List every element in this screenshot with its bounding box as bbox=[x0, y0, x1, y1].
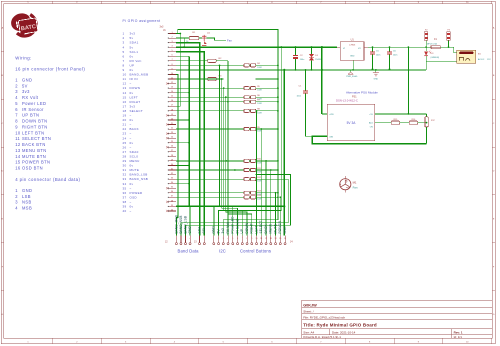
svg-text:Control Buttons: Control Buttons bbox=[240, 249, 271, 254]
svg-text:2: 2 bbox=[180, 238, 181, 240]
wire SDA1 SCL1 to J3 bbox=[176, 43, 200, 236]
svg-text:BACK: BACK bbox=[130, 127, 139, 131]
BATC logo bbox=[9, 11, 38, 36]
svg-text:26: 26 bbox=[123, 145, 127, 149]
svg-text:MENU BTN: MENU BTN bbox=[22, 148, 47, 153]
svg-text:+VIN: +VIN bbox=[329, 114, 334, 116]
svg-text:OSD BTN: OSD BTN bbox=[22, 166, 43, 171]
svg-text:BAND_LSB: BAND_LSB bbox=[183, 216, 187, 233]
svg-text:37: 37 bbox=[123, 195, 127, 199]
power flag PWR_FLAG on 0v bbox=[350, 70, 352, 72]
svg-text:BAND_NSB: BAND_NSB bbox=[130, 177, 149, 181]
svg-text:Fan: Fan bbox=[353, 186, 358, 190]
svg-text:POWER BTN: POWER BTN bbox=[22, 160, 50, 165]
svg-text:13: 13 bbox=[123, 86, 127, 90]
wire GND to band connector bbox=[189, 206, 191, 235]
svg-text:3v3: 3v3 bbox=[221, 228, 225, 234]
svg-text:GND: GND bbox=[188, 226, 192, 234]
svg-text:1: 1 bbox=[123, 32, 125, 36]
svg-text:13: 13 bbox=[15, 148, 21, 153]
wires drops to control connector bbox=[213, 206, 215, 235]
svg-text:3v3: 3v3 bbox=[130, 32, 136, 36]
svg-text:1: 1 bbox=[15, 188, 18, 193]
svg-text:IR Sensor: IR Sensor bbox=[22, 107, 44, 112]
ground symbol bbox=[375, 70, 377, 73]
svg-text:10: 10 bbox=[15, 130, 21, 135]
svg-text:3: 3 bbox=[223, 238, 224, 240]
svg-text:File: RYDE_GPIO_v23-kad.sch: File: RYDE_GPIO_v23-kad.sch bbox=[303, 316, 345, 320]
svg-text:KiCad E.D.A. kicad (5.1.9)-1: KiCad E.D.A. kicad (5.1.9)-1 bbox=[303, 335, 341, 339]
svg-text:12: 12 bbox=[123, 82, 127, 86]
svg-text:0v: 0v bbox=[130, 182, 134, 186]
svg-text:13: 13 bbox=[270, 238, 272, 240]
svg-text:POWER: POWER bbox=[130, 191, 143, 195]
svg-text:10: 10 bbox=[256, 238, 258, 240]
svg-text:9: 9 bbox=[251, 238, 252, 240]
wire 3v3 rail bbox=[179, 34, 181, 107]
capacitor C2 bbox=[295, 47, 297, 55]
svg-text:POWER: POWER bbox=[278, 220, 282, 233]
svg-text:MF-R 0.5A: MF-R 0.5A bbox=[427, 42, 437, 45]
svg-text:~: ~ bbox=[130, 132, 132, 136]
wire regulator input bbox=[368, 46, 431, 48]
svg-text:SDA: SDA bbox=[197, 226, 201, 234]
svg-text:4: 4 bbox=[15, 206, 18, 211]
svg-text:~: ~ bbox=[130, 186, 132, 190]
svg-text:OSD: OSD bbox=[283, 226, 287, 234]
svg-text:0v: 0v bbox=[130, 141, 134, 145]
svg-text:DOWN BTN: DOWN BTN bbox=[22, 119, 48, 124]
svg-text:27: 27 bbox=[123, 150, 127, 154]
svg-text:Pi GPIO assignment: Pi GPIO assignment bbox=[123, 19, 161, 23]
svg-text:~: ~ bbox=[130, 200, 132, 204]
svg-text:Size: A4: Size: A4 bbox=[303, 330, 314, 334]
svg-text:RX Volt: RX Volt bbox=[226, 222, 230, 233]
svg-text:Date: 2021-10-14: Date: 2021-10-14 bbox=[332, 330, 356, 334]
svg-text:32: 32 bbox=[123, 173, 127, 177]
svg-text:23: 23 bbox=[123, 132, 127, 136]
svg-text:IR Sensor: IR Sensor bbox=[235, 218, 239, 234]
svg-text:1: 1 bbox=[213, 238, 214, 240]
svg-text:2: 2 bbox=[218, 238, 219, 240]
svg-text:33: 33 bbox=[123, 177, 127, 181]
svg-text:MENU: MENU bbox=[269, 223, 273, 233]
svg-text:40: 40 bbox=[123, 209, 127, 213]
svg-text:14: 14 bbox=[15, 154, 21, 159]
svg-text:4 pin connector (Band data): 4 pin connector (Band data) bbox=[15, 177, 80, 182]
svg-text:21: 21 bbox=[123, 123, 127, 127]
wire IR input bbox=[176, 78, 224, 80]
svg-text:18: 18 bbox=[123, 109, 127, 113]
svg-text:~: ~ bbox=[130, 136, 132, 140]
svg-text:4: 4 bbox=[228, 238, 229, 240]
svg-text:6: 6 bbox=[123, 54, 125, 58]
svg-text:Fan: Fan bbox=[227, 38, 232, 42]
svg-text:3: 3 bbox=[15, 200, 18, 205]
svg-text:BACK: BACK bbox=[264, 224, 268, 234]
svg-text:G: G bbox=[2, 314, 4, 316]
svg-text:31: 31 bbox=[123, 168, 127, 172]
svg-text:28: 28 bbox=[123, 154, 127, 158]
svg-text:12: 12 bbox=[265, 238, 267, 240]
svg-text:7: 7 bbox=[123, 59, 125, 63]
svg-text:SCL0: SCL0 bbox=[130, 154, 139, 158]
svg-text:LSB: LSB bbox=[22, 194, 31, 199]
svg-text:16: 16 bbox=[15, 166, 21, 171]
svg-text:4: 4 bbox=[190, 238, 191, 240]
svg-text:5: 5 bbox=[123, 50, 125, 54]
svg-text:SCL1: SCL1 bbox=[130, 50, 139, 54]
svg-text:1: 1 bbox=[15, 78, 18, 83]
wires pull-up collector joins bbox=[256, 64, 278, 66]
capacitor C6 bbox=[389, 47, 391, 52]
svg-text:0v: 0v bbox=[130, 205, 134, 209]
svg-text:35: 35 bbox=[123, 186, 127, 190]
svg-text:15: 15 bbox=[123, 95, 127, 99]
svg-text:0v: 0v bbox=[130, 54, 134, 58]
svg-text:100R: 100R bbox=[257, 103, 262, 105]
svg-text:20: 20 bbox=[123, 118, 127, 122]
svg-text:36: 36 bbox=[123, 191, 127, 195]
svg-text:16: 16 bbox=[123, 100, 127, 104]
svg-text:14: 14 bbox=[275, 238, 277, 240]
svg-text:MUTE: MUTE bbox=[130, 168, 140, 172]
svg-text:25: 25 bbox=[123, 141, 127, 145]
svg-text:100u: 100u bbox=[300, 59, 304, 61]
wire PSU input feed bbox=[321, 47, 323, 114]
svg-text:38: 38 bbox=[123, 200, 127, 204]
svg-text:NSB: NSB bbox=[22, 200, 32, 205]
resistor R17 bbox=[426, 114, 428, 117]
svg-text:5V 3A: 5V 3A bbox=[347, 121, 357, 125]
svg-text:5: 5 bbox=[15, 101, 18, 106]
svg-text:~: ~ bbox=[130, 114, 132, 118]
svg-text:MSB: MSB bbox=[22, 206, 32, 211]
svg-text:Alternative PSU Module: Alternative PSU Module bbox=[346, 91, 378, 95]
svg-text:GND: GND bbox=[212, 226, 216, 234]
svg-text:(GREEN): (GREEN) bbox=[431, 57, 440, 59]
svg-text:3v3: 3v3 bbox=[160, 26, 165, 29]
svg-text:100n: 100n bbox=[297, 96, 301, 98]
svg-text:12: 12 bbox=[15, 142, 21, 147]
svg-text:11: 11 bbox=[123, 77, 127, 81]
svg-text:100R: 100R bbox=[257, 90, 262, 92]
svg-text:3: 3 bbox=[15, 89, 18, 94]
svg-text:30: 30 bbox=[123, 164, 127, 168]
svg-text:5v: 5v bbox=[130, 36, 134, 40]
svg-text:15: 15 bbox=[15, 160, 21, 165]
svg-text:I2C: I2C bbox=[219, 249, 226, 254]
svg-text:17: 17 bbox=[123, 104, 127, 108]
svg-text:29: 29 bbox=[123, 159, 127, 163]
svg-text:19: 19 bbox=[123, 114, 127, 118]
connector J4 control buttons bbox=[213, 236, 215, 243]
svg-text:G: G bbox=[493, 314, 495, 316]
svg-text:Id: 1/1: Id: 1/1 bbox=[454, 335, 463, 339]
svg-text:8: 8 bbox=[247, 238, 248, 240]
svg-text:GND: GND bbox=[22, 188, 32, 193]
svg-text:BAND_MSB: BAND_MSB bbox=[174, 215, 178, 233]
svg-text:BACK BTN: BACK BTN bbox=[22, 142, 46, 147]
svg-text:SCL: SCL bbox=[202, 227, 206, 234]
svg-text:IR IN: IR IN bbox=[130, 77, 138, 81]
svg-text:RX Volt: RX Volt bbox=[130, 59, 142, 63]
svg-text:14: 14 bbox=[123, 91, 127, 95]
wire junction dots bbox=[225, 160, 227, 162]
diode D1 TVS bbox=[311, 47, 313, 54]
svg-text:100n: 100n bbox=[393, 55, 397, 57]
svg-text:MUTE: MUTE bbox=[273, 224, 277, 233]
svg-text:GND: GND bbox=[22, 78, 32, 83]
svg-text:ADJ: ADJ bbox=[369, 122, 373, 125]
svg-text:-VIN: -VIN bbox=[329, 136, 334, 138]
svg-text:AC-DC: AC-DC bbox=[478, 58, 485, 61]
svg-text:22: 22 bbox=[123, 127, 127, 131]
svg-text:Wiring:: Wiring: bbox=[15, 56, 32, 61]
svg-text:4: 4 bbox=[15, 95, 18, 100]
svg-text:0v: 0v bbox=[130, 68, 134, 72]
svg-text:MENU: MENU bbox=[130, 159, 140, 163]
svg-text:~: ~ bbox=[130, 209, 132, 213]
svg-text:6: 6 bbox=[15, 107, 18, 112]
svg-text:8: 8 bbox=[123, 63, 125, 67]
svg-text:16 pin connector (front Panel): 16 pin connector (front Panel) bbox=[15, 67, 85, 72]
svg-text:9: 9 bbox=[15, 124, 18, 129]
transistor Q1 fan driver with resistor R1 bbox=[176, 37, 189, 39]
svg-text:15: 15 bbox=[279, 238, 281, 240]
svg-text:Power LED: Power LED bbox=[231, 216, 235, 234]
svg-text:Title: Ryde Minimal GPIO Board: Title: Ryde Minimal GPIO Board bbox=[303, 323, 377, 328]
svg-text:100R: 100R bbox=[257, 112, 262, 114]
svg-text:~: ~ bbox=[130, 82, 132, 86]
regulator U1 bbox=[340, 42, 364, 61]
svg-text:M1: M1 bbox=[353, 181, 357, 185]
svg-text:LEFT: LEFT bbox=[130, 95, 139, 99]
svg-text:RIGHT: RIGHT bbox=[250, 223, 254, 233]
svg-text:DSN-L3.0-W12-C: DSN-L3.0-W12-C bbox=[336, 98, 358, 102]
svg-text:BAND_NSB: BAND_NSB bbox=[179, 216, 183, 234]
svg-text:RIGHT: RIGHT bbox=[130, 100, 141, 104]
svg-text:L7805: L7805 bbox=[349, 45, 356, 47]
title block bbox=[302, 299, 492, 301]
svg-text:DOWN: DOWN bbox=[245, 222, 249, 233]
svg-text:LEFT BTN: LEFT BTN bbox=[22, 130, 44, 135]
svg-text:16: 16 bbox=[284, 238, 286, 240]
svg-text:DOWN: DOWN bbox=[130, 86, 141, 90]
svg-text:3v3: 3v3 bbox=[22, 89, 30, 94]
svg-text:~: ~ bbox=[130, 145, 132, 149]
svg-text:PWR_FLAG: PWR_FLAG bbox=[346, 75, 357, 78]
svg-text:UP: UP bbox=[240, 229, 244, 234]
svg-text:Sheet: /: Sheet: / bbox=[303, 309, 314, 313]
svg-text:SDA0: SDA0 bbox=[130, 150, 139, 154]
svg-text:OSD: OSD bbox=[130, 195, 138, 199]
wire 0v rail bbox=[176, 55, 189, 57]
svg-text:3: 3 bbox=[185, 238, 186, 240]
svg-text:VO: VO bbox=[358, 48, 361, 50]
capacitor C5 bbox=[372, 47, 374, 52]
svg-text:~: ~ bbox=[130, 123, 132, 127]
svg-text:SDA1: SDA1 bbox=[130, 41, 139, 45]
resistor R2 bbox=[176, 60, 208, 62]
connector F3 jumper bbox=[448, 40, 450, 47]
svg-text:BAND_MSB: BAND_MSB bbox=[130, 73, 149, 77]
svg-text:G0KJW: G0KJW bbox=[303, 304, 317, 308]
svg-text:SELECT BTN: SELECT BTN bbox=[22, 136, 51, 141]
fan motor M1 bbox=[340, 179, 351, 190]
svg-text:GND: GND bbox=[374, 79, 379, 81]
svg-text:RX Volt: RX Volt bbox=[22, 95, 39, 100]
svg-text:BAND_LSB: BAND_LSB bbox=[130, 173, 148, 177]
svg-text:RIGHT BTN: RIGHT BTN bbox=[22, 124, 48, 129]
junction bbox=[448, 46, 450, 48]
svg-text:0v: 0v bbox=[130, 164, 134, 168]
svg-text:2: 2 bbox=[15, 194, 18, 199]
wire 5v rail bbox=[176, 37, 184, 39]
wire 0v distribution rail bbox=[176, 69, 426, 71]
svg-text:Power LED: Power LED bbox=[22, 101, 46, 106]
wire BAND_MSB bbox=[176, 74, 178, 235]
resistors R15 R16 bbox=[375, 122, 391, 124]
svg-text:5v: 5v bbox=[130, 45, 134, 49]
svg-text:11: 11 bbox=[260, 238, 262, 240]
svg-text:1: 1 bbox=[176, 238, 177, 240]
capacitor C1 bbox=[305, 70, 307, 90]
svg-text:7: 7 bbox=[242, 238, 243, 240]
svg-text:0v: 0v bbox=[130, 91, 134, 95]
svg-text:100n: 100n bbox=[376, 55, 380, 57]
svg-text:3: 3 bbox=[123, 41, 125, 45]
svg-text:2: 2 bbox=[15, 83, 18, 88]
wires BAND_LSB BAND_NSB bbox=[181, 179, 288, 236]
resistor R3 bbox=[208, 77, 216, 80]
svg-text:39: 39 bbox=[123, 205, 127, 209]
svg-text:5: 5 bbox=[232, 238, 233, 240]
svg-text:0v: 0v bbox=[130, 118, 134, 122]
svg-text:11: 11 bbox=[15, 136, 20, 141]
LED D3 bbox=[425, 47, 427, 51]
wire PSU ground bbox=[312, 136, 426, 143]
wire adapter ground return bbox=[426, 61, 457, 70]
svg-text:SELECT: SELECT bbox=[259, 221, 263, 234]
svg-text:3v3: 3v3 bbox=[130, 104, 136, 108]
svg-text:GND: GND bbox=[350, 56, 355, 58]
svg-text:100R: 100R bbox=[257, 67, 262, 69]
svg-text:5V: 5V bbox=[22, 83, 28, 88]
svg-text:4: 4 bbox=[123, 45, 125, 49]
svg-text:MUTE BTN: MUTE BTN bbox=[22, 154, 46, 159]
svg-text:6: 6 bbox=[237, 238, 238, 240]
svg-text:Band Data: Band Data bbox=[178, 249, 200, 254]
svg-text:34: 34 bbox=[123, 182, 127, 186]
svg-text:SELECT: SELECT bbox=[130, 109, 143, 113]
svg-text:LEFT: LEFT bbox=[254, 225, 258, 233]
connector F2 jumper bbox=[425, 40, 427, 47]
svg-text:UP BTN: UP BTN bbox=[22, 113, 39, 118]
resistors R4-R14 button series bbox=[176, 64, 244, 66]
svg-text:Rev: 1: Rev: 1 bbox=[454, 330, 463, 334]
AC adapter B1 bbox=[457, 50, 476, 63]
svg-text:8: 8 bbox=[15, 119, 18, 124]
svg-text:7: 7 bbox=[15, 113, 18, 118]
wire PSU 5V output bbox=[375, 113, 427, 115]
svg-text:UP: UP bbox=[130, 63, 135, 67]
svg-text:24: 24 bbox=[123, 136, 127, 140]
svg-text:2: 2 bbox=[123, 36, 125, 40]
svg-text:10: 10 bbox=[123, 73, 127, 77]
svg-text:9: 9 bbox=[123, 68, 125, 72]
